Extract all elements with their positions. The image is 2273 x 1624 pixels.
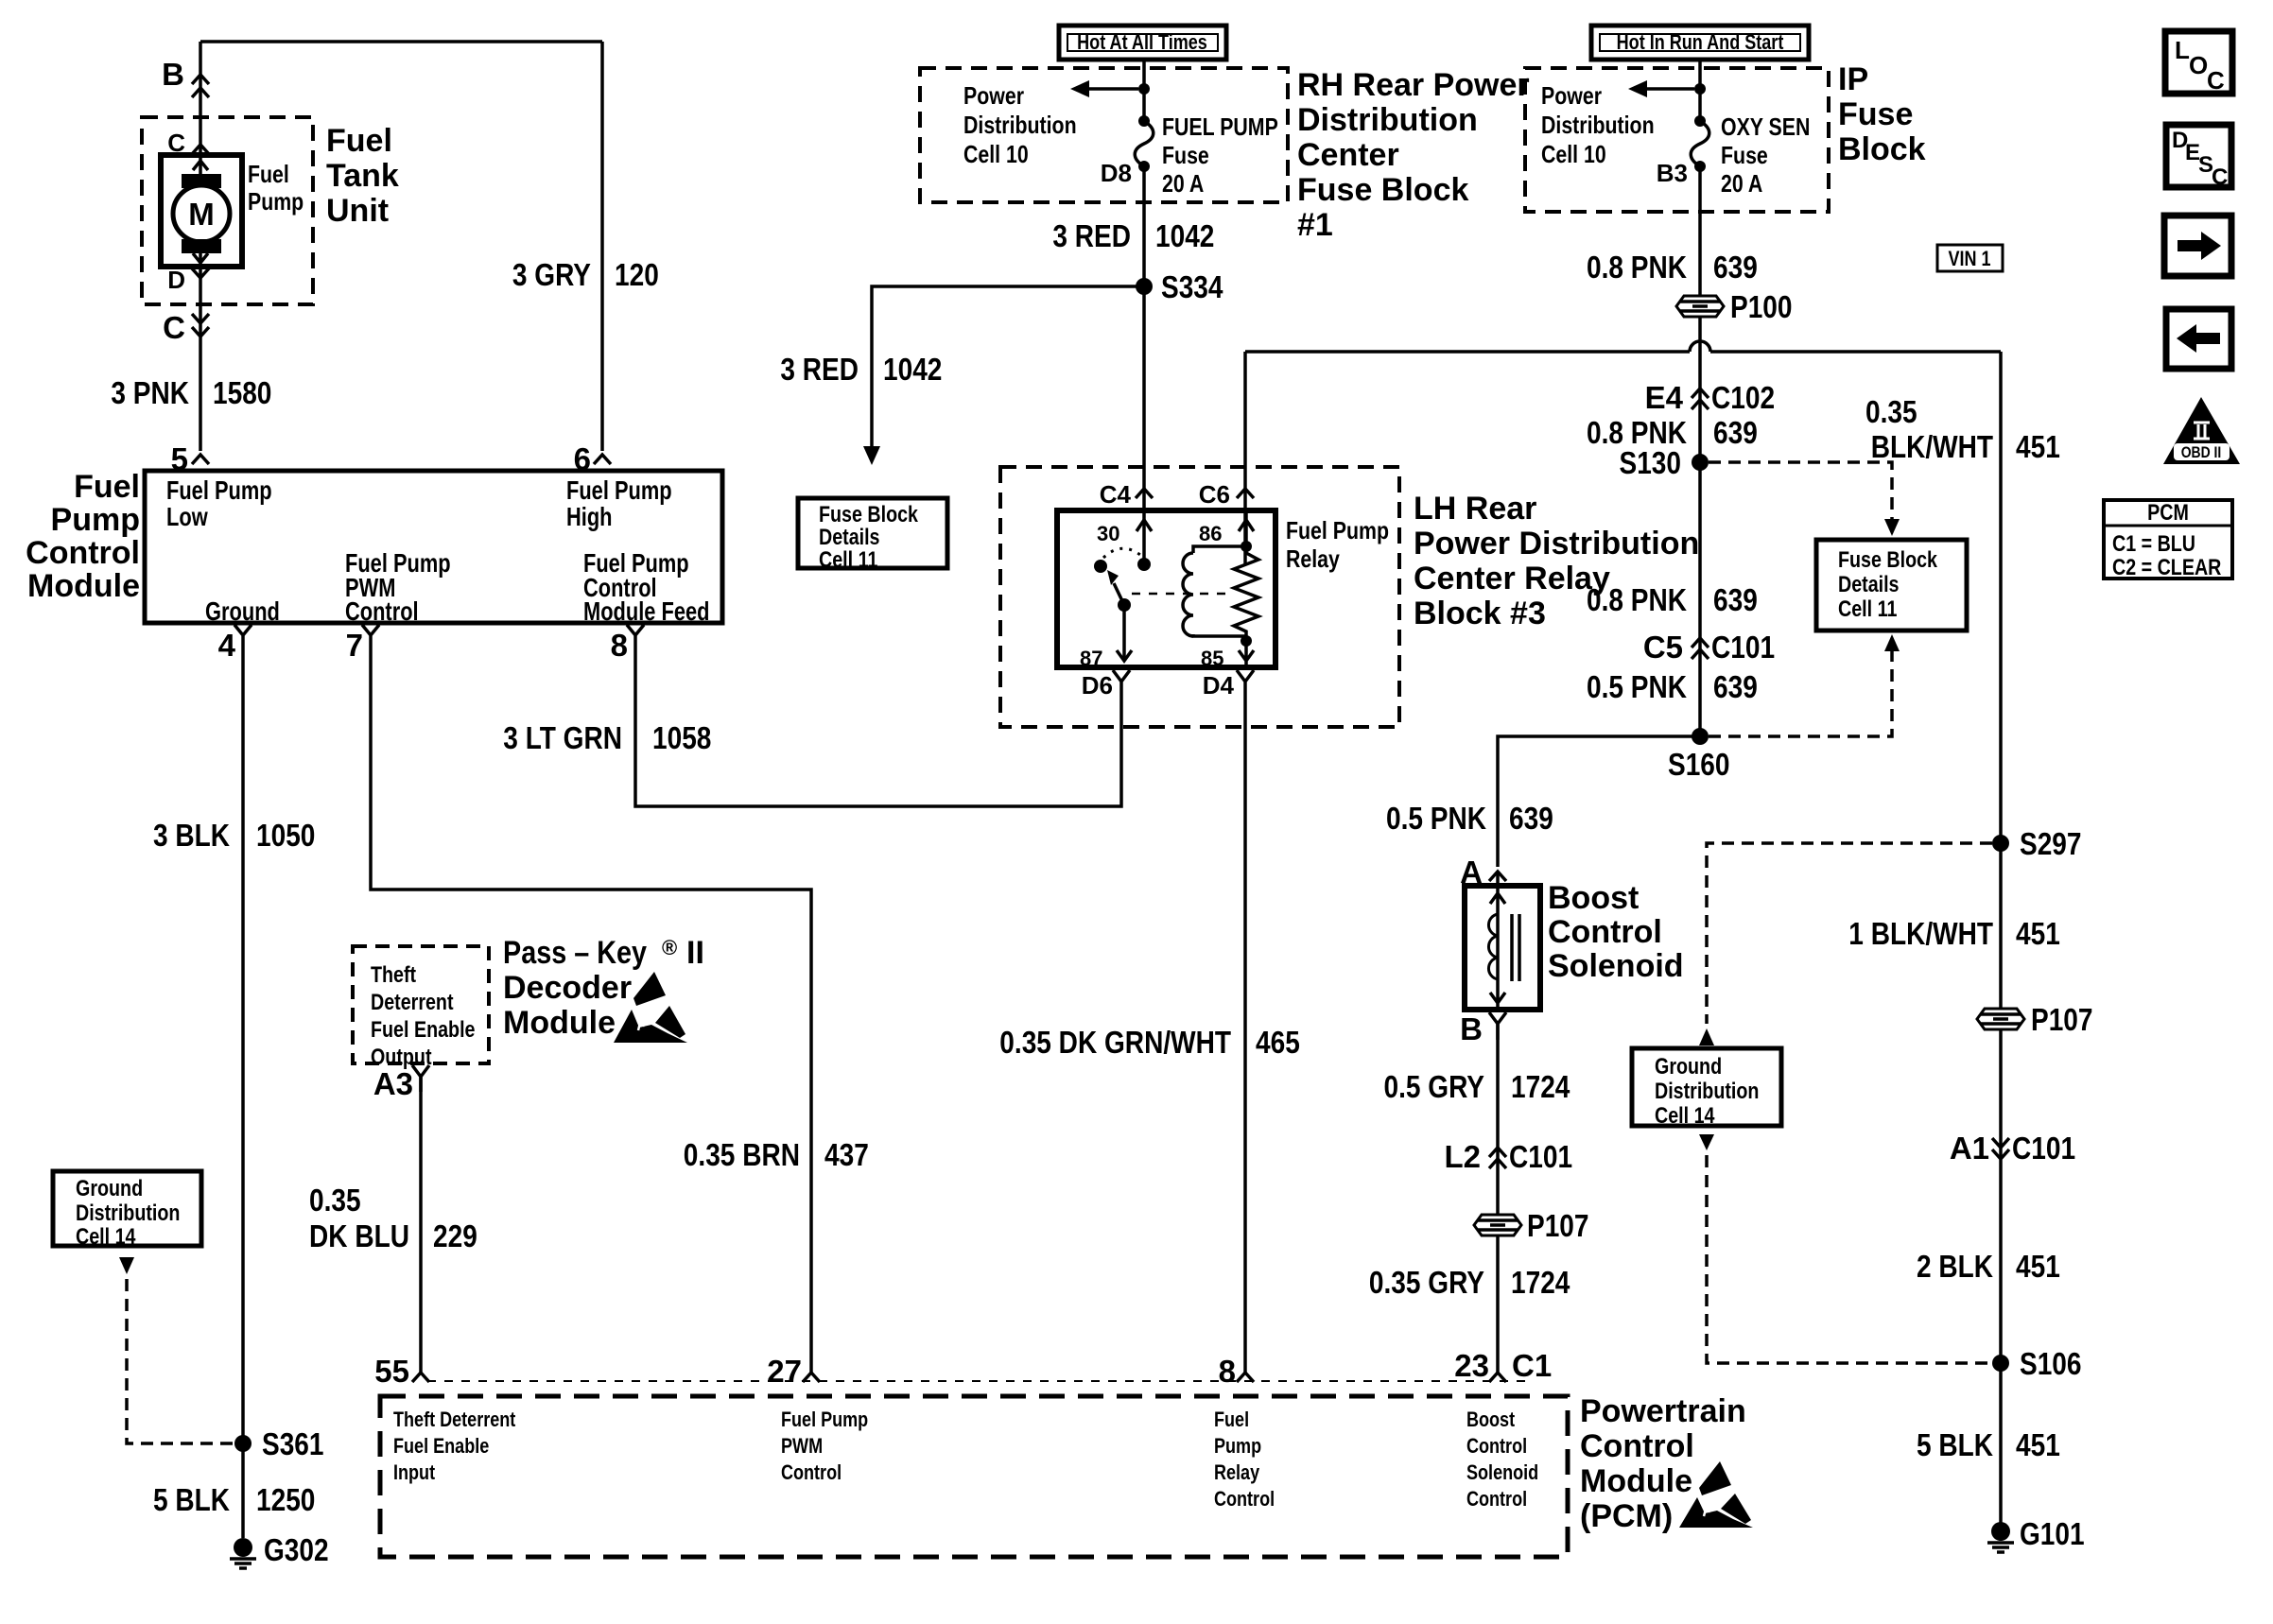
powertrain control module dashed box — [380, 1396, 1568, 1557]
svg-text:Fuel Pump: Fuel Pump — [166, 475, 272, 505]
node S130 — [1692, 454, 1709, 471]
svg-text:Block: Block — [1838, 131, 1926, 167]
DESC legend box — [2166, 125, 2231, 187]
svg-text:Power Distribution: Power Distribution — [1414, 526, 1699, 561]
svg-text:C101: C101 — [1711, 630, 1775, 665]
dashed wire: ground distribution (right) down to S106 — [1699, 1134, 1714, 1150]
svg-text:C1 = BLU: C1 = BLU — [2112, 531, 2195, 557]
Hot At All Times header box — [1059, 26, 1226, 60]
svg-text:DK BLU: DK BLU — [309, 1218, 409, 1253]
node S361 — [234, 1435, 252, 1452]
svg-text:#1: #1 — [1297, 207, 1333, 243]
svg-text:639: 639 — [1713, 582, 1758, 617]
svg-text:3 PNK: 3 PNK — [111, 375, 189, 410]
fuel pump motor M1 box — [161, 155, 242, 267]
svg-text:Control: Control — [781, 1460, 842, 1484]
svg-text:Fuel Pump: Fuel Pump — [1286, 516, 1389, 544]
svg-text:(PCM): (PCM) — [1580, 1498, 1673, 1534]
fuse block details cell 11 box (right) — [1816, 540, 1967, 631]
svg-text:O: O — [2189, 51, 2208, 79]
left-arrow legend box — [2166, 309, 2231, 369]
fuse F1: FUEL PUMP Fuse 20 A — [1138, 115, 1150, 127]
svg-text:D8: D8 — [1101, 159, 1132, 187]
wire: motor D down through connector C to pin 5 — [199, 267, 202, 451]
svg-text:C: C — [2207, 66, 2225, 95]
wire: 3 RED 1042 from fuse D8 to S334 — [1142, 166, 1146, 286]
svg-text:Power: Power — [963, 81, 1024, 110]
svg-text:OBD II: OBD II — [2181, 443, 2222, 461]
svg-text:Control: Control — [1548, 914, 1662, 950]
svg-text:Module: Module — [503, 1005, 616, 1041]
relay terminal 30 arrow — [1136, 520, 1152, 531]
svg-text:Tank: Tank — [326, 158, 399, 194]
svg-text:4: 4 — [218, 628, 236, 663]
svg-text:Ground: Ground — [205, 596, 280, 626]
svg-text:Distribution: Distribution — [963, 111, 1077, 139]
fuel pump relay box — [1057, 510, 1275, 667]
wire: FPCM pin 7 to PCM pin 27 — [371, 652, 811, 1373]
svg-text:BLK/WHT: BLK/WHT — [1871, 429, 1993, 464]
svg-text:Relay: Relay — [1214, 1460, 1260, 1484]
svg-text:G302: G302 — [264, 1532, 329, 1567]
svg-text:PWM: PWM — [781, 1434, 823, 1458]
dashed wire: ground distribution (left) to S361 — [119, 1257, 134, 1274]
relay terminal 86 arrow — [1239, 510, 1254, 546]
svg-text:Fuel Pump: Fuel Pump — [781, 1408, 868, 1431]
LH rear power distribution center relay block #3 dashed box — [1000, 467, 1399, 727]
fuse F2: OXY SEN Fuse 20 A — [1694, 115, 1706, 127]
svg-text:Details: Details — [1838, 572, 1900, 597]
svg-text:Cell 10: Cell 10 — [1541, 140, 1606, 168]
svg-text:1250: 1250 — [256, 1482, 315, 1517]
ground distribution cell 14 box (left) — [53, 1171, 201, 1246]
wire: relay D4 to PCM pin 8 — [1243, 700, 1247, 1373]
svg-text:8: 8 — [611, 628, 628, 663]
svg-text:Module: Module — [27, 568, 140, 604]
svg-text:2 BLK: 2 BLK — [1917, 1249, 1993, 1284]
svg-text:Center: Center — [1297, 137, 1399, 173]
ground distribution cell 14 box (right) — [1632, 1048, 1781, 1126]
svg-text:20 A: 20 A — [1162, 169, 1204, 198]
pin C (top of fuel pump) — [192, 145, 209, 154]
svg-text:S361: S361 — [262, 1426, 324, 1461]
svg-text:Fuse: Fuse — [1838, 96, 1913, 132]
svg-text:FUEL PUMP: FUEL PUMP — [1162, 112, 1278, 141]
svg-text:Fuel: Fuel — [248, 160, 289, 188]
svg-text:D4: D4 — [1203, 671, 1235, 700]
svg-text:3 RED: 3 RED — [780, 352, 859, 387]
svg-text:S106: S106 — [2020, 1346, 2082, 1381]
svg-text:120: 120 — [615, 257, 659, 292]
pin B connector (double chevron) — [192, 75, 209, 97]
svg-text:5 BLK: 5 BLK — [153, 1482, 230, 1517]
svg-text:Cell 10: Cell 10 — [963, 140, 1029, 168]
svg-text:639: 639 — [1713, 415, 1758, 450]
svg-text:S160: S160 — [1668, 747, 1730, 782]
svg-text:0.35: 0.35 — [1865, 394, 1917, 429]
wire: arrow to Power Distribution Cell 10 (IP) — [1645, 87, 1694, 91]
dashed wire: S160 to fuse block details (up arrow) — [1709, 648, 1892, 736]
svg-text:PCM: PCM — [2147, 500, 2189, 526]
svg-text:27: 27 — [767, 1354, 802, 1389]
svg-text:Pump: Pump — [248, 187, 304, 216]
svg-text:A1: A1 — [1950, 1131, 1989, 1166]
svg-text:0.8 PNK: 0.8 PNK — [1587, 582, 1687, 617]
fuse block details cell 11 box (left) — [798, 498, 947, 568]
LOC legend box — [2165, 31, 2232, 94]
relay switch contact dots — [1137, 558, 1151, 571]
wire: S160 left to boost solenoid branch — [1498, 736, 1700, 867]
svg-text:Control: Control — [1466, 1434, 1527, 1458]
node: junction dot at IP feed — [1694, 83, 1706, 95]
svg-text:Theft Deterrent: Theft Deterrent — [393, 1408, 516, 1431]
svg-text:Input: Input — [393, 1460, 436, 1484]
svg-text:1058: 1058 — [652, 720, 711, 755]
motor internal feed arrow (up) — [193, 158, 208, 174]
relay switch arm with arrowhead — [1114, 583, 1124, 605]
motor circle with M — [173, 185, 230, 242]
node S160 — [1692, 728, 1709, 745]
wire: A3 to PCM pin 55 (0.35 DK BLU 229) — [419, 1077, 423, 1373]
svg-text:Cell 11: Cell 11 — [819, 547, 877, 573]
svg-text:0.35: 0.35 — [309, 1183, 361, 1218]
svg-text:0.5 GRY: 0.5 GRY — [1384, 1069, 1485, 1104]
svg-text:C: C — [163, 310, 185, 345]
OBD II symbol — [2163, 397, 2240, 464]
right-arrow legend box — [2164, 216, 2231, 276]
svg-text:Distribution: Distribution — [76, 1201, 180, 1226]
svg-text:Deterrent: Deterrent — [371, 990, 454, 1015]
wire: right ground net vertical (451) — [1999, 352, 2003, 1523]
svg-text:451: 451 — [2016, 916, 2060, 951]
svg-text:S297: S297 — [2020, 826, 2082, 861]
svg-text:1724: 1724 — [1511, 1069, 1570, 1104]
ESD symbol (PCM) — [1679, 1461, 1753, 1528]
svg-text:C5: C5 — [1643, 630, 1683, 665]
svg-text:OXY SEN: OXY SEN — [1721, 112, 1810, 141]
svg-text:Hot At All Times: Hot At All Times — [1077, 30, 1207, 54]
node S334 — [1136, 278, 1153, 295]
svg-text:Fuse: Fuse — [1721, 141, 1768, 169]
connector P107 (grommet, boost wire) — [1474, 1215, 1521, 1235]
svg-text:1050: 1050 — [256, 818, 315, 853]
wire: feed from Hot In Run And Start into fuse — [1698, 60, 1702, 121]
svg-text:Low: Low — [166, 502, 208, 531]
svg-text:C101: C101 — [1509, 1139, 1572, 1174]
svg-text:Cell 11: Cell 11 — [1838, 596, 1897, 622]
svg-text:Pump: Pump — [51, 502, 140, 538]
svg-text:Ground: Ground — [1655, 1054, 1722, 1080]
svg-text:High: High — [566, 502, 613, 531]
svg-text:Boost: Boost — [1466, 1408, 1516, 1431]
RH rear power distribution center fuse block #1 dashed box — [920, 68, 1288, 202]
svg-text:C102: C102 — [1711, 380, 1775, 415]
svg-text:Fuel Pump: Fuel Pump — [566, 475, 672, 505]
svg-text:VIN 1: VIN 1 — [1948, 247, 1990, 270]
svg-text:Details: Details — [819, 525, 880, 550]
svg-text:451: 451 — [2016, 429, 2060, 464]
svg-text:0.5 PNK: 0.5 PNK — [1587, 669, 1687, 704]
PCM connector C1 line (thin dashed) — [427, 1380, 1532, 1382]
svg-text:86: 86 — [1199, 522, 1222, 545]
pass-key II decoder module dashed box — [353, 946, 489, 1063]
svg-text:Control: Control — [1466, 1487, 1527, 1511]
svg-text:451: 451 — [2016, 1427, 2060, 1462]
svg-text:8: 8 — [1219, 1354, 1236, 1389]
connector P100 (grommet) — [1676, 296, 1724, 317]
wire: feed from Hot At All Times into fuse — [1142, 60, 1146, 121]
svg-text:Pass – Key: Pass – Key — [503, 935, 647, 971]
svg-text:IP: IP — [1838, 61, 1868, 97]
svg-text:1042: 1042 — [883, 352, 942, 387]
svg-text:L2: L2 — [1444, 1139, 1481, 1174]
svg-text:L: L — [2175, 36, 2190, 64]
svg-text:Distribution: Distribution — [1655, 1079, 1759, 1104]
boost control solenoid box — [1465, 886, 1540, 1010]
motor commutator bottom block — [182, 239, 221, 253]
VIN 1 box — [1937, 245, 2003, 271]
svg-text:Fuse Block: Fuse Block — [819, 502, 919, 527]
svg-text:Module Feed: Module Feed — [583, 596, 710, 626]
svg-text:Cell 14: Cell 14 — [76, 1224, 136, 1250]
svg-text:P107: P107 — [1527, 1208, 1589, 1243]
wire: S130 down to S160 — [1698, 462, 1702, 736]
svg-text:Control: Control — [26, 535, 140, 571]
dashed wire: S130 to fuse block details (down arrow) — [1709, 462, 1892, 523]
svg-text:Block #3: Block #3 — [1414, 596, 1546, 631]
wire: top jumper from fuel pump B to FPCM pin 6 — [200, 40, 602, 43]
svg-text:M: M — [188, 197, 215, 232]
svg-text:LH Rear: LH Rear — [1414, 491, 1536, 527]
wire: FPCM pin 4 ground wire down to G302 — [241, 652, 245, 1538]
svg-text:3 RED: 3 RED — [1052, 218, 1131, 253]
svg-text:P107: P107 — [2031, 1002, 2093, 1037]
svg-text:Unit: Unit — [326, 193, 389, 229]
svg-text:Fuel: Fuel — [74, 469, 140, 505]
inline connector C (double chevron down) — [192, 314, 209, 337]
IP fuse block dashed box — [1525, 68, 1829, 212]
svg-text:639: 639 — [1713, 250, 1758, 285]
svg-text:0.5 PNK: 0.5 PNK — [1386, 801, 1486, 836]
svg-text:451: 451 — [2016, 1249, 2060, 1284]
fuel tank unit dashed box — [142, 117, 313, 304]
svg-text:E4: E4 — [1645, 380, 1684, 415]
ground G101 — [1991, 1522, 2010, 1541]
PCM connector legend table — [2104, 500, 2232, 580]
solenoid core lines — [1512, 914, 1519, 981]
svg-text:Fuel: Fuel — [326, 123, 392, 159]
svg-text:Fuel Enable: Fuel Enable — [393, 1434, 489, 1458]
svg-text:C2 = CLEAR: C2 = CLEAR — [2112, 555, 2221, 580]
node S297 — [1992, 835, 2009, 852]
svg-text:20 A: 20 A — [1721, 169, 1762, 198]
svg-text:Pump: Pump — [1214, 1434, 1261, 1458]
svg-text:C101: C101 — [2012, 1131, 2075, 1166]
svg-text:3 GRY: 3 GRY — [512, 257, 591, 292]
svg-text:C6: C6 — [1199, 480, 1230, 509]
svg-text:Control: Control — [345, 596, 419, 626]
svg-text:23: 23 — [1454, 1348, 1489, 1383]
svg-text:639: 639 — [1713, 669, 1758, 704]
svg-text:Theft: Theft — [371, 962, 416, 988]
svg-text:0.8 PNK: 0.8 PNK — [1587, 250, 1687, 285]
svg-text:Fuse Block: Fuse Block — [1838, 547, 1938, 573]
relay coil suppression resistor — [1234, 546, 1258, 641]
svg-text:B3: B3 — [1657, 159, 1688, 187]
svg-text:C: C — [2212, 164, 2228, 190]
pin D (bottom of fuel pump) — [192, 268, 209, 278]
svg-text:Center Relay: Center Relay — [1414, 561, 1610, 596]
relay coil — [1241, 541, 1252, 552]
svg-text:87: 87 — [1080, 647, 1102, 670]
wire: fuel pump feed vertical (B to motor) — [199, 42, 202, 155]
svg-text:S334: S334 — [1161, 269, 1223, 304]
svg-text:RH Rear Power: RH Rear Power — [1297, 67, 1530, 103]
svg-text:Ground: Ground — [76, 1176, 143, 1201]
svg-text:Power: Power — [1541, 81, 1602, 110]
svg-text:B: B — [1460, 1011, 1483, 1046]
svg-text:Fuse Block: Fuse Block — [1297, 172, 1468, 208]
svg-text:1724: 1724 — [1511, 1265, 1570, 1300]
svg-text:Fuel Enable: Fuel Enable — [371, 1017, 476, 1043]
svg-text:1 BLK/WHT: 1 BLK/WHT — [1848, 916, 1993, 951]
svg-text:Control: Control — [1580, 1428, 1694, 1464]
motor internal out arrow (down) — [193, 253, 208, 264]
svg-text:A3: A3 — [373, 1066, 413, 1101]
solenoid coil — [1488, 914, 1498, 979]
svg-text:C4: C4 — [1100, 480, 1132, 509]
svg-text:D: D — [167, 266, 185, 294]
svg-text:85: 85 — [1201, 647, 1223, 670]
svg-text:Solenoid: Solenoid — [1548, 948, 1684, 984]
dashed wire: S297 to ground distribution cell 14 (right) — [1707, 843, 1992, 1024]
svg-text:639: 639 — [1509, 801, 1553, 836]
wire: S334 down to relay C4 — [1142, 286, 1146, 564]
svg-text:Distribution: Distribution — [1541, 111, 1655, 139]
svg-text:II: II — [686, 935, 704, 971]
ground G302 — [234, 1538, 252, 1557]
wire: arrow to Power Distribution Cell 10 — [1087, 87, 1138, 91]
svg-text:S130: S130 — [1620, 445, 1682, 480]
wire: FPCM pin 8 to relay D6 (3 LT GRN 1058) — [635, 652, 1121, 806]
svg-text:Fuel: Fuel — [1214, 1408, 1249, 1431]
connector P107 (grommet, right net) — [1977, 1009, 2024, 1029]
svg-text:0.35 DK GRN/WHT: 0.35 DK GRN/WHT — [999, 1025, 1231, 1060]
ESD symbol (pass-key) — [614, 972, 687, 1043]
relay terminal 85 — [1239, 641, 1254, 667]
solenoid internal wire with arrows — [1490, 886, 1505, 1010]
svg-text:Powertrain: Powertrain — [1580, 1393, 1746, 1429]
svg-text:Module: Module — [1580, 1463, 1692, 1499]
svg-text:Distribution: Distribution — [1297, 102, 1478, 138]
svg-text:0.35 GRY: 0.35 GRY — [1369, 1265, 1484, 1300]
wire: 3 GRY 120 vertical to pin 6 — [600, 42, 604, 451]
svg-text:229: 229 — [433, 1218, 477, 1253]
svg-text:Fuse: Fuse — [1162, 141, 1209, 169]
svg-text:1042: 1042 — [1155, 218, 1214, 253]
wire: bus down to relay C6 — [1243, 352, 1247, 564]
node: junction dot at RH feed — [1138, 83, 1150, 95]
motor commutator top block — [182, 174, 221, 188]
wire: solenoid B down to PCM pin 23 — [1496, 1024, 1500, 1373]
svg-text:P100: P100 — [1730, 289, 1793, 324]
svg-text:Boost: Boost — [1548, 880, 1639, 916]
svg-text:1580: 1580 — [213, 375, 271, 410]
svg-text:7: 7 — [346, 628, 363, 663]
relay terminal 87 — [1122, 605, 1126, 660]
svg-text:G101: G101 — [2020, 1516, 2085, 1551]
svg-text:C1: C1 — [1512, 1348, 1552, 1383]
wire: S334 branch to fuse block details — [872, 286, 1144, 450]
Hot In Run And Start header box — [1591, 26, 1809, 60]
svg-text:Solenoid: Solenoid — [1466, 1460, 1538, 1484]
svg-text:5 BLK: 5 BLK — [1917, 1427, 1993, 1462]
relay switch travel arc (dotted) — [1103, 548, 1140, 558]
svg-text:30: 30 — [1097, 522, 1119, 545]
svg-text:465: 465 — [1256, 1025, 1300, 1060]
relay mechanical link (dashed) — [1132, 593, 1228, 596]
wire: main bus C6 to right ground net (with hop) — [1245, 341, 2001, 352]
svg-text:55: 55 — [374, 1354, 409, 1389]
svg-text:3 BLK: 3 BLK — [153, 818, 230, 853]
svg-text:Control: Control — [1214, 1487, 1275, 1511]
svg-text:Relay: Relay — [1286, 544, 1340, 573]
svg-text:D6: D6 — [1082, 671, 1113, 700]
svg-text:Cell 14: Cell 14 — [1655, 1103, 1715, 1129]
fuel pump control module box — [145, 471, 722, 623]
svg-text:B: B — [162, 57, 184, 92]
node S106 — [1992, 1355, 2009, 1372]
svg-text:437: 437 — [824, 1137, 869, 1172]
svg-text:Decoder: Decoder — [503, 970, 632, 1006]
svg-text:0.35 BRN: 0.35 BRN — [684, 1137, 800, 1172]
svg-text:3 LT GRN: 3 LT GRN — [503, 720, 622, 755]
svg-text:®: ® — [662, 936, 677, 959]
svg-text:Hot In Run And Start: Hot In Run And Start — [1617, 30, 1784, 54]
wire: 0.8 PNK 639 from fuse B3 down to S130 — [1698, 166, 1702, 462]
